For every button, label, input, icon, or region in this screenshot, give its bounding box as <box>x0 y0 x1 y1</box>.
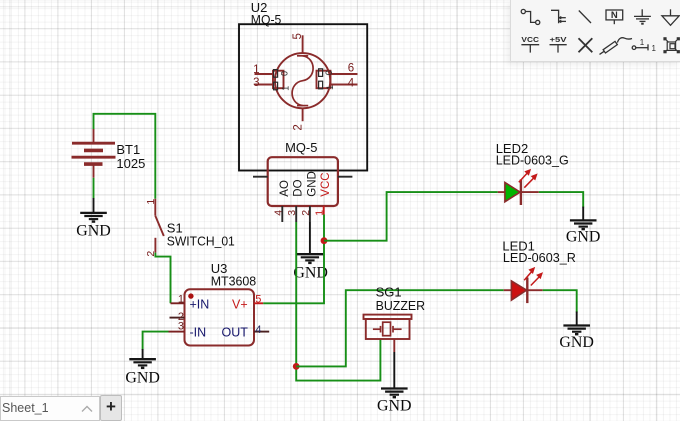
pin name VCC <box>320 172 332 196</box>
svg-text:V+: V+ <box>232 297 248 311</box>
pin number 3 of U3 <box>178 321 184 333</box>
label LED1 <box>502 238 535 253</box>
label U3 <box>211 261 228 276</box>
svg-text:LED-0603_R: LED-0603_R <box>503 250 576 265</box>
LED D2 symbol <box>498 179 539 205</box>
pin 5 of U2 <box>302 35 304 53</box>
svg-text:N: N <box>611 10 618 21</box>
wire LED1 cathode to ground <box>543 290 577 312</box>
svg-text:OUT: OUT <box>222 326 249 340</box>
pin name +IN <box>190 297 210 311</box>
label MQ-5 module <box>285 140 317 155</box>
pin 1 stub of U3 <box>171 302 185 304</box>
svg-text:2: 2 <box>292 124 304 130</box>
svg-text:GND: GND <box>566 228 601 245</box>
svg-text:+IN: +IN <box>190 297 210 311</box>
svg-text:4: 4 <box>272 210 284 216</box>
label LED2 <box>496 141 529 156</box>
label LED-0603_G <box>496 152 569 167</box>
pin name V+ <box>232 297 248 311</box>
svg-text:MQ-5: MQ-5 <box>285 140 317 155</box>
electrode pads right <box>319 69 323 89</box>
left electrode of U2 <box>255 71 284 89</box>
icon net label <box>606 10 623 24</box>
icon ground <box>634 9 651 23</box>
icon draw bus <box>551 10 566 23</box>
svg-text:-IN: -IN <box>190 326 207 340</box>
pin 4 stub of module <box>281 206 283 222</box>
svg-text:5: 5 <box>255 294 261 306</box>
LED D1 symbol <box>504 278 543 304</box>
pin number 2 of U2 <box>292 124 304 130</box>
ground GND under module <box>297 254 324 263</box>
sensor U2 outline rectangle <box>239 24 367 170</box>
net label GND under LED1 <box>559 334 594 351</box>
svg-text:1: 1 <box>145 199 157 205</box>
icon group <box>663 37 680 53</box>
ground GND under LED2 <box>570 207 597 230</box>
pin name A0 <box>280 71 290 76</box>
pin number 3 of module <box>286 210 298 216</box>
svg-text:2: 2 <box>300 210 312 216</box>
pin name B0 <box>324 70 334 75</box>
pin number 5 of U2 <box>292 33 304 39</box>
icon no connect <box>579 38 593 52</box>
svg-text:6: 6 <box>348 63 354 75</box>
wire switch to U3 pin1 <box>155 253 170 304</box>
junction A <box>321 237 328 244</box>
wire module pin2 to ground <box>309 222 311 254</box>
junction B <box>293 363 300 370</box>
pin number 2 of module <box>300 210 312 216</box>
icon draw wire <box>521 9 540 24</box>
icon chassis ground <box>662 9 679 25</box>
wire V+ net from U3 pin5 up to junction A <box>263 215 324 304</box>
svg-text:BUZZER: BUZZER <box>376 298 426 313</box>
battery BT1 <box>72 129 116 178</box>
emission arrows of LED2 <box>519 170 537 188</box>
svg-text:SWITCH_01: SWITCH_01 <box>167 233 235 248</box>
side stub right of module <box>338 176 353 178</box>
pin number 1 of module <box>314 210 326 216</box>
ground GND under LED1 <box>563 312 590 335</box>
ground GND under buzzer <box>381 389 408 398</box>
sensor circle of U2 <box>275 53 330 108</box>
label S1 <box>167 220 183 235</box>
buzzer SG1 symbol <box>364 315 412 339</box>
pin name B1 <box>325 85 335 90</box>
pin number 2 of U3 <box>178 311 184 323</box>
pin 2 stub of module <box>309 206 311 222</box>
pin 4 stub of U3 <box>254 331 269 333</box>
label MQ-5 top <box>251 12 281 27</box>
svg-text:GND: GND <box>306 171 318 197</box>
side stub left of module <box>253 176 268 178</box>
pin number 1 of U2 <box>253 64 259 76</box>
pin stub right of buzzer <box>393 339 395 352</box>
op-amp U3 MT3608 body <box>185 289 255 345</box>
icon pin <box>632 38 656 53</box>
svg-text:3: 3 <box>178 321 184 333</box>
pin name -IN <box>190 326 207 340</box>
pin name GND <box>306 171 318 197</box>
pin number 3 of U2 <box>253 77 259 89</box>
svg-text:GND: GND <box>377 398 412 415</box>
svg-text:GND: GND <box>76 223 111 240</box>
svg-text:1: 1 <box>652 44 657 53</box>
svg-text:1: 1 <box>253 64 259 76</box>
svg-text:VCC: VCC <box>521 35 539 44</box>
pin name DO <box>293 179 305 196</box>
svg-text:0: 0 <box>280 71 290 76</box>
pin number 1 of S1 <box>145 199 157 205</box>
svg-text:4: 4 <box>348 78 355 90</box>
wire battery- to ground <box>93 178 95 199</box>
label U2 <box>251 0 268 15</box>
module box MQ-5 <box>268 157 338 206</box>
svg-text:3: 3 <box>253 77 259 89</box>
right electrode of U2 <box>317 71 358 89</box>
svg-text:1: 1 <box>640 38 645 47</box>
pin number 2 of S1 <box>145 251 157 257</box>
heater curve of U2 <box>292 56 313 106</box>
pin 5 stub of U3 <box>254 302 263 304</box>
add sheet button <box>100 395 122 421</box>
svg-text:1: 1 <box>325 85 335 90</box>
svg-text:1: 1 <box>281 86 291 91</box>
ground GND under U3 <box>129 349 156 368</box>
pin 1 stub of module <box>323 206 325 215</box>
label SG1 <box>376 285 402 300</box>
svg-text:MQ-5: MQ-5 <box>251 12 281 27</box>
pin name A1 <box>281 86 291 91</box>
icon +5V flag <box>550 35 567 52</box>
net label GND under buzzer <box>377 398 412 415</box>
svg-text:VCC: VCC <box>320 172 332 196</box>
emission arrows of LED1 <box>524 268 542 285</box>
pin number 6 of U2 <box>348 63 354 75</box>
label BT1 <box>116 142 140 157</box>
net label GND under module <box>293 264 328 281</box>
icon draw line <box>579 11 591 24</box>
svg-text:1: 1 <box>178 294 184 306</box>
pin number 4 of module <box>272 210 284 216</box>
label LED-0603_R <box>503 250 576 265</box>
svg-text:AO: AO <box>279 180 291 197</box>
svg-text:1025: 1025 <box>116 156 145 171</box>
pin 3 stub of U3 <box>169 331 185 333</box>
net label GND battery <box>76 223 111 240</box>
wire LED2 cathode to ground <box>539 192 583 207</box>
svg-text:MT3608: MT3608 <box>211 273 257 288</box>
pin number 5 of U3 <box>255 294 261 306</box>
pin name AO <box>279 180 291 197</box>
pin 2 stub of U3 <box>170 317 185 319</box>
electrode pads left <box>274 70 278 90</box>
svg-text:GND: GND <box>293 264 328 281</box>
svg-text:4: 4 <box>255 324 261 336</box>
svg-text:+5V: +5V <box>550 35 567 44</box>
label BUZZER <box>376 298 426 313</box>
svg-text:GND: GND <box>559 334 594 351</box>
pin 3 stub of module <box>295 206 297 222</box>
svg-text:0: 0 <box>324 70 334 75</box>
pin number 4 of U3 <box>255 324 261 336</box>
icon pen tool <box>600 38 633 55</box>
wire DO net module pin3 down to junction B <box>296 222 380 381</box>
net label GND under LED2 <box>566 228 601 245</box>
label MT3608 <box>211 273 257 288</box>
net label GND under U3 <box>125 369 160 386</box>
svg-text:DO: DO <box>293 179 305 196</box>
wire battery+ to switch <box>94 114 156 199</box>
svg-text:3: 3 <box>286 210 298 216</box>
svg-text:GND: GND <box>125 369 160 386</box>
wire junction A to LED2 <box>324 192 498 241</box>
pin number 1 of U3 <box>178 294 184 306</box>
pin name OUT <box>222 326 249 340</box>
pin 2 of U2 <box>302 108 304 121</box>
wire U3 pin3 to ground <box>143 332 169 350</box>
icon VCC flag <box>521 35 539 52</box>
svg-text:LED-0603_G: LED-0603_G <box>496 152 569 167</box>
wire junction B to LED1 <box>296 290 504 366</box>
label 1025 <box>116 156 145 171</box>
pin number 4 of U2 <box>348 78 355 90</box>
ground GND battery <box>80 198 107 222</box>
svg-text:5: 5 <box>292 33 304 39</box>
switch S1 <box>155 199 164 253</box>
label SWITCH_01 <box>167 233 235 248</box>
wire buzzer right pin to ground <box>393 352 395 388</box>
sheet tab Sheet_1 <box>0 396 100 421</box>
